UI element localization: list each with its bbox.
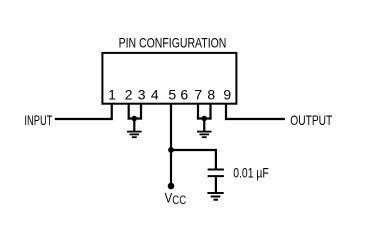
wire pin 3 stub — [140, 104, 142, 120]
svg-text:PIN CONFIGURATION: PIN CONFIGURATION — [119, 35, 227, 51]
svg-text:2: 2 — [125, 86, 133, 102]
ground GND (capacitor) — [207, 193, 223, 200]
wire joining pins 2 and 3 — [128, 117, 143, 119]
svg-text:0.01 µF: 0.01 µF — [233, 164, 269, 180]
wire pin 9 to OUTPUT — [226, 104, 285, 119]
VCC terminal dot — [168, 183, 175, 190]
wire joining pins 7 and 8 — [197, 117, 212, 119]
wire pin 2 stub — [128, 104, 130, 120]
svg-text:6: 6 — [180, 86, 188, 102]
wire junction to ground (right) — [203, 119, 205, 132]
wire capacitor to ground — [215, 177, 217, 193]
svg-text:4: 4 — [151, 86, 159, 102]
capacitor C1 bottom plate — [208, 175, 224, 177]
capacitor C1 top plate — [208, 169, 224, 171]
wire pin 8 stub — [209, 104, 211, 120]
ground GND (pins 2-3) — [127, 132, 142, 138]
junction dot pins 2-3 — [132, 116, 138, 122]
IC body box U1 — [102, 53, 236, 104]
wire INPUT to pin 1 — [55, 104, 112, 119]
wire branch to capacitor C1 — [171, 150, 216, 169]
svg-text:7: 7 — [194, 86, 202, 102]
wire pin 5 to VCC — [170, 104, 172, 186]
svg-text:3: 3 — [138, 86, 146, 102]
ground GND (pins 7-8) — [197, 132, 212, 138]
svg-text:5: 5 — [168, 86, 176, 102]
wire pin 7 stub — [197, 104, 199, 120]
wire junction to ground (left) — [133, 119, 135, 132]
junction dot pins 7-8 — [201, 116, 207, 122]
svg-text:OUTPUT: OUTPUT — [290, 112, 332, 128]
junction dot pin 5 branch — [168, 147, 174, 153]
svg-text:8: 8 — [207, 86, 215, 102]
svg-text:CC: CC — [172, 193, 186, 207]
svg-text:9: 9 — [223, 86, 231, 102]
svg-text:INPUT: INPUT — [24, 112, 52, 128]
svg-text:1: 1 — [108, 86, 116, 102]
